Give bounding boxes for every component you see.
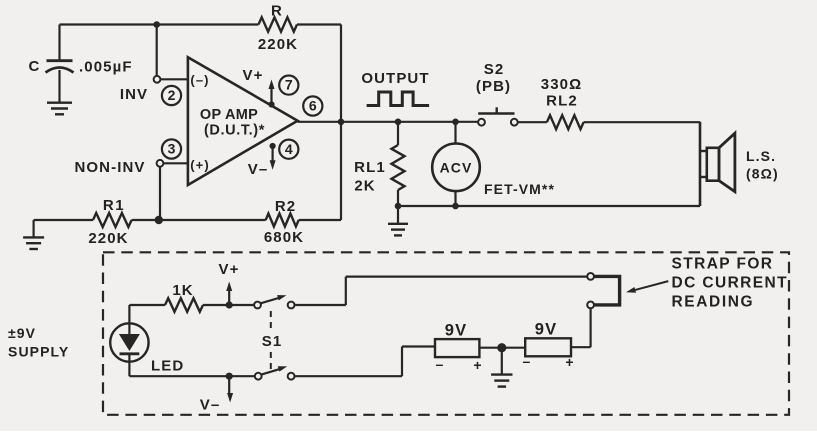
pin 4 — [279, 140, 298, 159]
svg-text:9V: 9V — [535, 321, 557, 339]
pin 6 — [303, 96, 322, 115]
resistor RL1 — [392, 145, 405, 190]
pin 3 — [162, 139, 181, 158]
wire B2 to strap riser — [571, 346, 591, 348]
svg-text:LED: LED — [151, 358, 184, 375]
wire RL2 to speaker — [584, 121, 700, 123]
pin 2 — [162, 86, 181, 105]
wire left end to ground — [32, 220, 34, 237]
node V+ — [226, 301, 233, 308]
ground (left) — [23, 236, 44, 238]
meter ACV (FET-VM) — [432, 144, 480, 192]
switch S1 lower pole — [255, 373, 262, 380]
node ACV bottom — [452, 203, 459, 210]
svg-text:7: 7 — [285, 77, 293, 93]
supply enclosure dashed box — [103, 252, 789, 414]
svg-text:R2: R2 — [275, 198, 296, 215]
node output/feedback — [338, 119, 345, 126]
wire B1 to B2 — [479, 347, 525, 349]
svg-text:(D.U.T.)*: (D.U.T.)* — [204, 123, 265, 139]
wire ACV bottom lead — [454, 191, 456, 206]
svg-text:1K: 1K — [172, 282, 193, 299]
wire LED top to 1K — [129, 304, 165, 306]
svg-text:(+): (+) — [190, 158, 210, 173]
resistor R — [259, 17, 298, 31]
wire RL1 bottom lead — [397, 190, 399, 206]
wire top rail right segment — [297, 23, 341, 25]
resistor RL2 — [547, 115, 584, 129]
wire battery riser — [401, 347, 403, 377]
resistor 1K — [165, 298, 203, 312]
terminal NON-INV (open) — [157, 160, 164, 167]
switch S1 upper pole — [254, 302, 261, 309]
wire ACV top lead — [454, 122, 456, 144]
wire corner vertical — [345, 277, 347, 305]
svg-text:220K: 220K — [258, 36, 298, 53]
ground (RL1) — [388, 223, 408, 225]
svg-text:S2: S2 — [484, 61, 505, 78]
wire LED bottom to V- node — [129, 375, 254, 377]
wire INV stub vertical — [156, 25, 158, 77]
svg-text:R: R — [271, 3, 283, 20]
wire RL1 top lead — [397, 122, 399, 145]
battery B1 9V — [435, 339, 479, 357]
strap pointer arrow — [631, 281, 669, 291]
svg-text:±9V: ±9V — [8, 325, 36, 341]
svg-text:(PB): (PB) — [476, 78, 511, 95]
svg-text:ACV: ACV — [440, 160, 473, 176]
V- arrow — [228, 376, 230, 396]
svg-text:2K: 2K — [354, 178, 375, 195]
svg-text:V–: V– — [248, 161, 269, 178]
wire S2 to RL2 — [518, 121, 547, 123]
op-amp U1 (D.U.T.) triangle — [188, 57, 298, 185]
wire feedback vertical — [340, 25, 342, 221]
wire R1 to junction — [132, 219, 266, 221]
wire INV to op-amp — [161, 78, 188, 80]
wire LED bottom lead — [128, 362, 130, 377]
svg-text:S1: S1 — [262, 333, 283, 350]
svg-text:OUTPUT: OUTPUT — [361, 70, 429, 87]
svg-text:V+: V+ — [243, 67, 264, 84]
node RL1 bottom — [395, 203, 402, 210]
svg-text:–: – — [523, 353, 532, 369]
S1 link dashed — [270, 311, 272, 329]
switch S2 push-button — [478, 119, 485, 126]
node RL1 top — [395, 119, 402, 126]
svg-text:RL1: RL1 — [354, 159, 386, 176]
wire 1K to V+ node — [203, 304, 257, 306]
svg-text:2: 2 — [168, 87, 176, 103]
wire NON-INV stub vertical — [159, 167, 161, 220]
pin 7 — [279, 76, 298, 95]
wire speaker vertical — [699, 122, 702, 206]
wire S1 upper to strap corner — [295, 304, 346, 306]
svg-text:9V: 9V — [445, 322, 467, 340]
svg-text:–: – — [436, 356, 445, 372]
wire strap riser vertical — [589, 308, 591, 347]
capacitor C plates — [47, 59, 73, 62]
svg-text:FET-VM**: FET-VM** — [484, 181, 555, 197]
svg-text:STRAP FOR: STRAP FOR — [672, 255, 774, 272]
wire upper long rail to strap — [346, 276, 587, 278]
svg-text:RL2: RL2 — [546, 93, 578, 110]
wire middle bottom rail — [398, 205, 700, 207]
svg-text:330Ω: 330Ω — [541, 76, 582, 93]
loudspeaker L.S. — [707, 148, 719, 181]
terminal strap bottom — [587, 302, 594, 309]
svg-text:3: 3 — [168, 141, 176, 157]
svg-text:6: 6 — [309, 98, 317, 114]
svg-text:R1: R1 — [103, 197, 125, 214]
V+ arrow — [228, 288, 230, 305]
node battery midpoint — [497, 343, 506, 352]
node ACV top — [452, 119, 459, 126]
svg-text:C: C — [29, 58, 41, 75]
wire top rail left segment — [60, 23, 259, 25]
svg-text:(–): (–) — [190, 73, 209, 88]
LED D1 — [110, 323, 148, 361]
wire output rail — [298, 121, 482, 123]
node feedback/top junction — [153, 21, 160, 28]
wire capacitor to top rail — [58, 25, 60, 61]
wire ground stub (RL1) — [397, 206, 399, 224]
wire NON-INV to op-amp — [164, 162, 188, 164]
wire capacitor to ground — [58, 70, 60, 103]
node V- — [226, 373, 233, 380]
battery B2 9V — [525, 338, 571, 356]
terminal strap top — [587, 273, 594, 280]
strap (DC current) — [594, 276, 619, 305]
resistor R1 — [93, 213, 132, 227]
svg-text:680K: 680K — [264, 229, 304, 246]
svg-text:DC CURRENT: DC CURRENT — [672, 275, 788, 292]
svg-text:INV: INV — [120, 86, 148, 103]
resistor R2 — [266, 214, 299, 227]
svg-text:.005µF: .005µF — [79, 59, 133, 76]
output square wave symbol — [367, 92, 430, 106]
ground (battery) — [491, 373, 512, 375]
wire R2 to feedback vertical — [299, 219, 341, 221]
svg-text:SUPPLY: SUPPLY — [8, 344, 69, 360]
ground (capacitor) — [47, 101, 72, 103]
svg-text:+: + — [565, 354, 574, 370]
svg-text:V–: V– — [200, 397, 221, 414]
terminal INV (open) — [154, 76, 161, 83]
wire S1 lower to battery riser — [295, 375, 403, 377]
wire riser to battery B1 — [402, 345, 435, 347]
pin 4 arrow down — [270, 143, 276, 149]
svg-text:+: + — [473, 357, 482, 373]
node R1/R2/non-inv junction — [155, 216, 163, 224]
pin 7 arrow up — [268, 101, 274, 107]
wire bottom rail left — [34, 219, 93, 221]
wire LED top lead — [128, 305, 130, 323]
svg-text:220K: 220K — [88, 230, 128, 247]
svg-text:4: 4 — [285, 141, 293, 157]
svg-text:(8Ω): (8Ω) — [746, 166, 779, 182]
svg-text:OP AMP: OP AMP — [200, 107, 258, 123]
svg-text:V+: V+ — [219, 261, 240, 278]
wire battery midpoint to ground — [501, 348, 503, 375]
svg-text:L.S.: L.S. — [746, 148, 776, 164]
svg-text:NON-INV: NON-INV — [74, 159, 145, 176]
svg-text:READING: READING — [672, 294, 755, 311]
